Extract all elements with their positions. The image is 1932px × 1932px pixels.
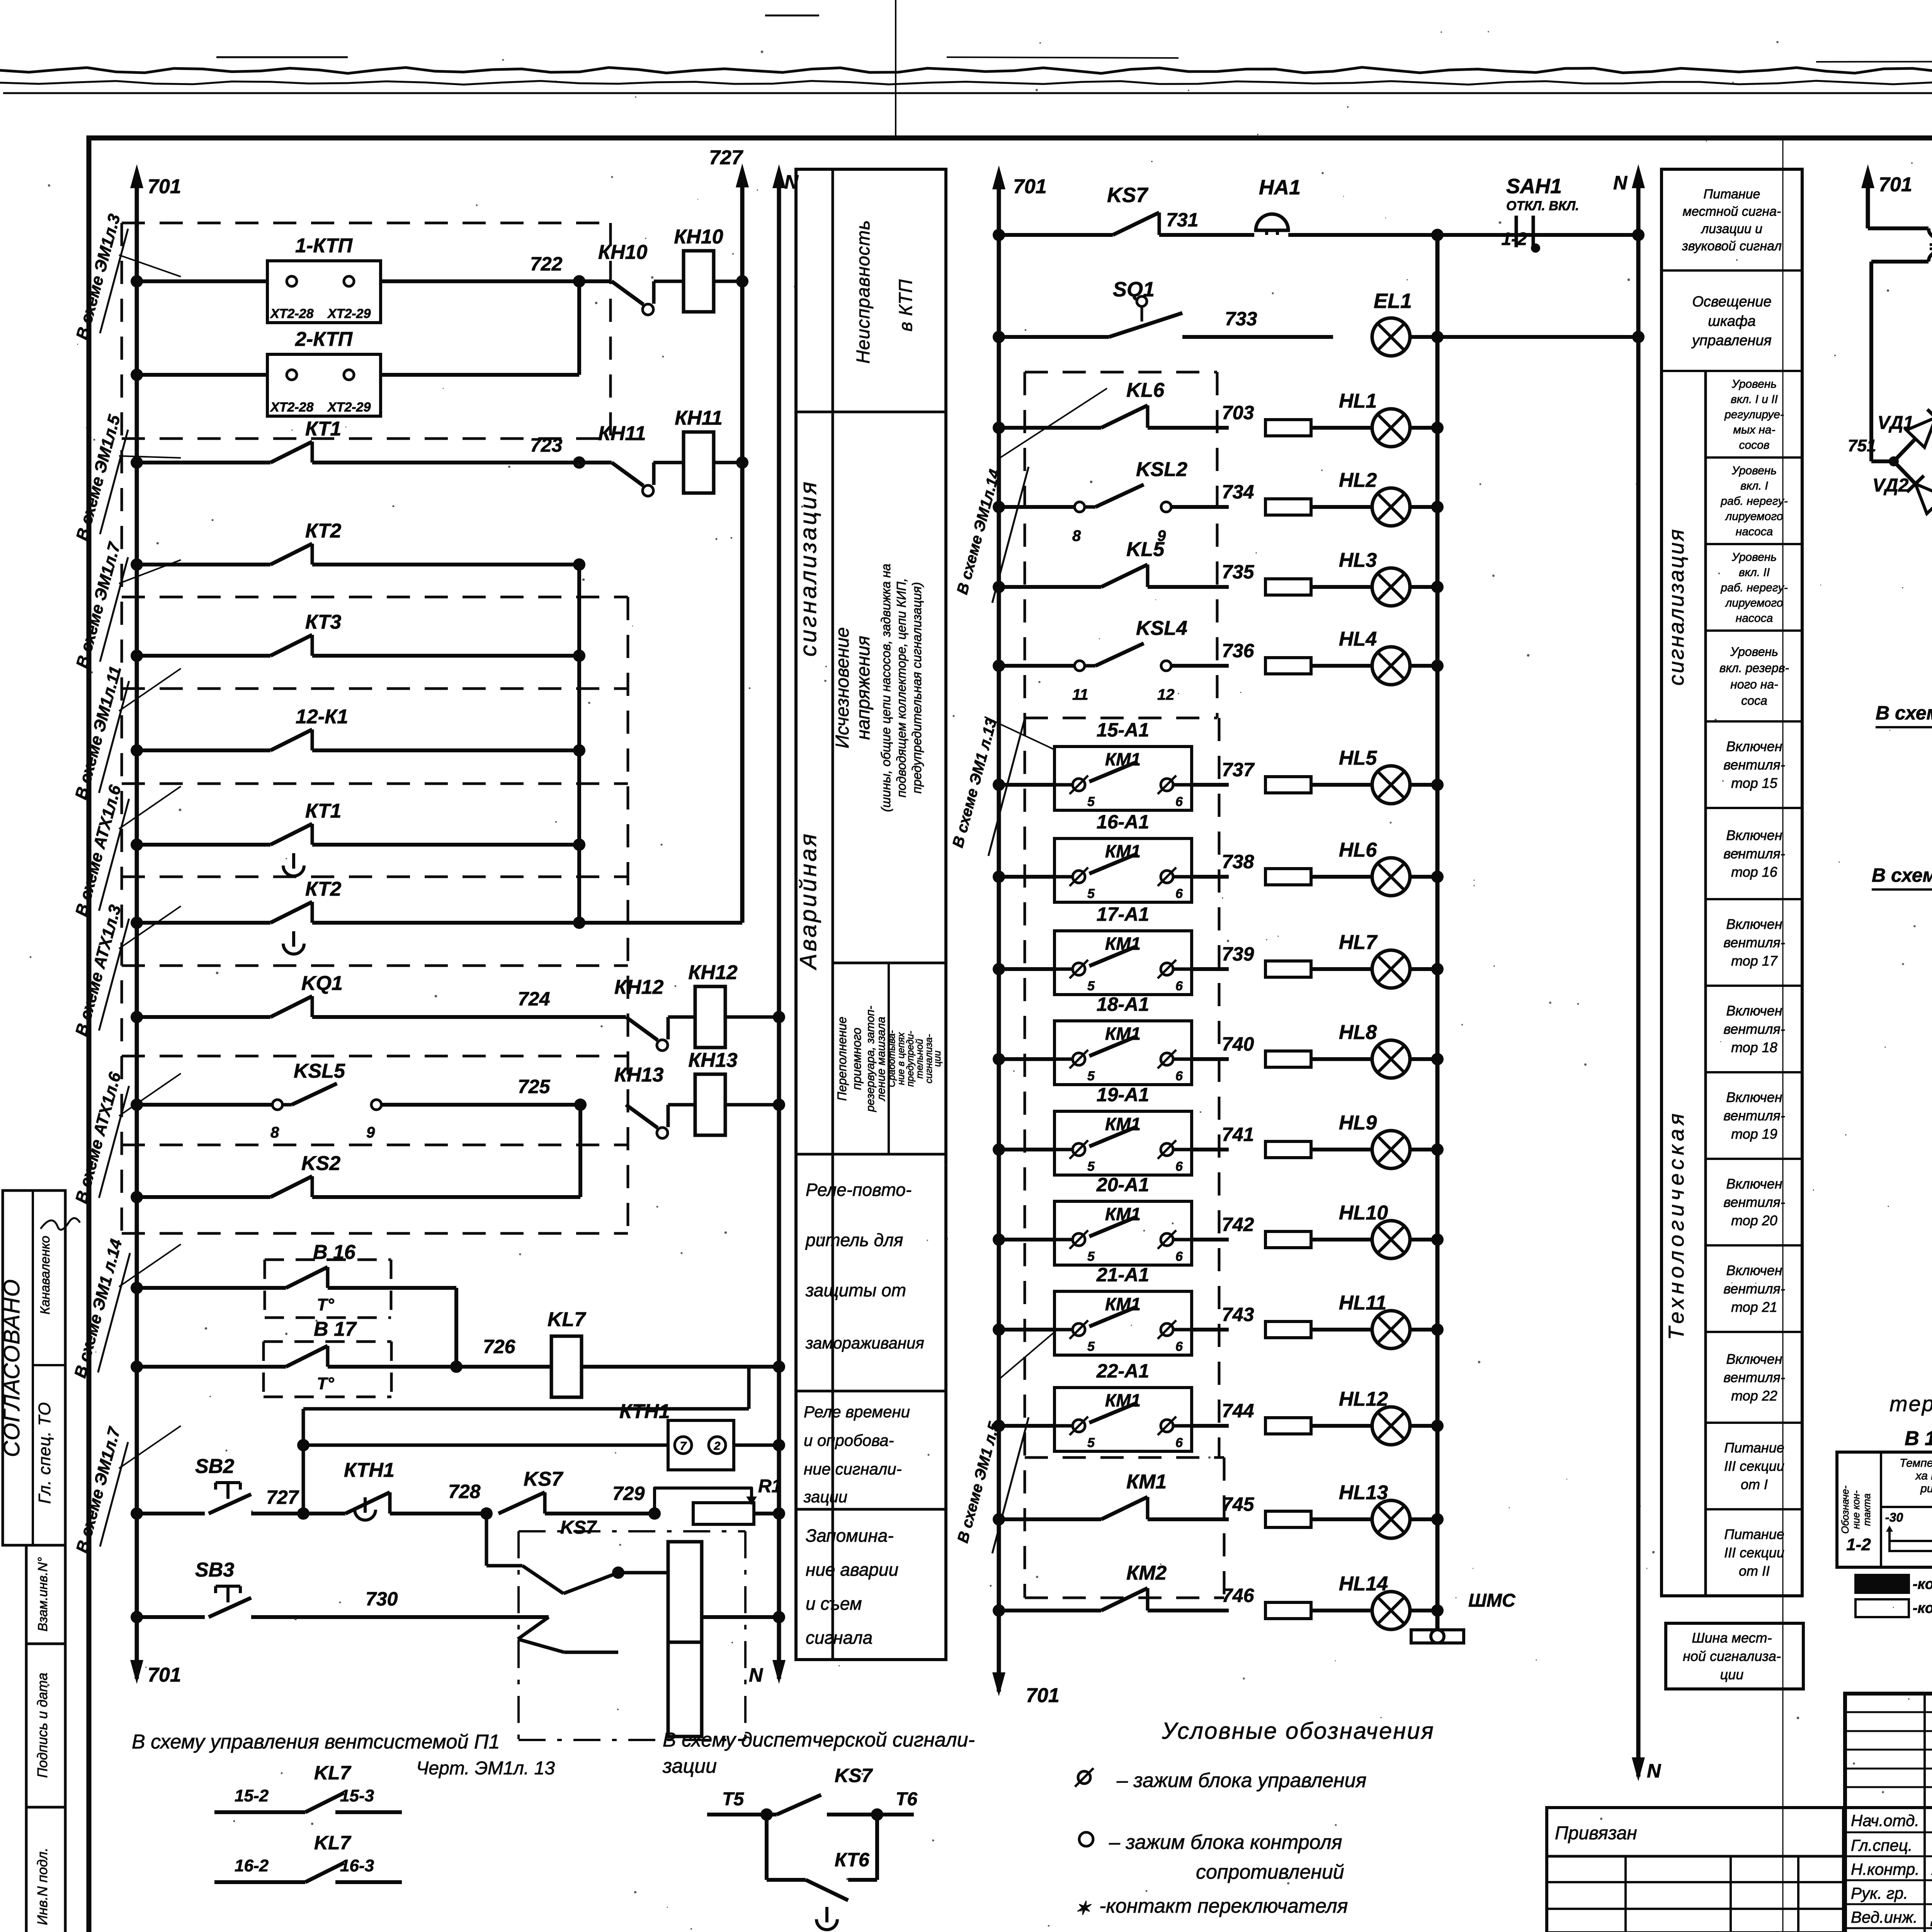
svg-text:вентиля-: вентиля- bbox=[1723, 846, 1785, 862]
svg-text:HL14: HL14 bbox=[1339, 1573, 1388, 1595]
svg-text:Аварийная: Аварийная bbox=[795, 832, 821, 970]
svg-text:VД2: VД2 bbox=[1872, 475, 1909, 496]
svg-text:от I: от I bbox=[1741, 1476, 1768, 1492]
svg-text:предупредительная сигнализация: предупредительная сигнализация) bbox=[910, 582, 924, 793]
svg-text:ХТ2-29: ХТ2-29 bbox=[327, 400, 371, 415]
pushbutton SB3 bbox=[131, 1611, 143, 1623]
svg-text:745: 745 bbox=[1222, 1493, 1255, 1515]
svg-text:раб. нерегу-: раб. нерегу- bbox=[1720, 495, 1787, 508]
svg-text:вкл. I и II: вкл. I и II bbox=[1731, 393, 1778, 406]
svg-text:В схему управления вентсисте: В схему управления вентсистемой П1 bbox=[132, 1731, 500, 1753]
row KSL2 / HL2 bbox=[993, 501, 1005, 513]
svg-text:731: 731 bbox=[1166, 209, 1198, 231]
svg-text:В схеме АТХ1л.6: В схеме АТХ1л.6 bbox=[72, 783, 125, 918]
svg-text:вентиля-: вентиля- bbox=[1723, 757, 1785, 773]
svg-text:KQ1: KQ1 bbox=[301, 972, 343, 995]
stamp box Взам.инв.№ bbox=[26, 1545, 65, 1644]
svg-text:НА1: НА1 bbox=[1259, 176, 1301, 199]
svg-text:KS7: KS7 bbox=[1107, 184, 1149, 207]
svg-text:HL11: HL11 bbox=[1339, 1292, 1386, 1314]
svg-text:В схеме ЭМ1 л.5: В схеме ЭМ1 л.5 bbox=[954, 1420, 1003, 1545]
svg-text:Уровень: Уровень bbox=[1731, 551, 1777, 563]
svg-text:тор 20: тор 20 bbox=[1731, 1213, 1777, 1228]
svg-text:Переполнение: Переполнение bbox=[835, 1017, 849, 1101]
svg-text:735: 735 bbox=[1222, 561, 1255, 583]
svg-text:тор 16: тор 16 bbox=[1731, 864, 1778, 880]
svg-text:5: 5 bbox=[1087, 1069, 1095, 1083]
svg-text:В схеме АТХ1л.6: В схеме АТХ1л.6 bbox=[72, 1070, 125, 1206]
svg-text:727: 727 bbox=[709, 146, 743, 169]
svg-text:734: 734 bbox=[1222, 481, 1254, 503]
svg-text:В схеме ЭМ1л.14: В схеме ЭМ1л.14 bbox=[954, 468, 1003, 596]
svg-text:2-КТП: 2-КТП bbox=[295, 328, 353, 350]
svg-text:В схеме ЭМ1л.3: В схеме ЭМ1л.3 bbox=[73, 212, 124, 342]
svg-text:6: 6 bbox=[1175, 794, 1183, 809]
svg-text:КН12: КН12 bbox=[688, 961, 737, 984]
svg-text:701: 701 bbox=[1013, 175, 1047, 198]
svg-text:Канаваленко: Канаваленко bbox=[38, 1236, 53, 1315]
svg-text:21-А1: 21-А1 bbox=[1096, 1264, 1149, 1286]
svg-text:Включен: Включен bbox=[1726, 1262, 1782, 1278]
svg-text:КН13: КН13 bbox=[614, 1064, 663, 1086]
svg-text:В схеме ЭМ1 л.13: В схеме ЭМ1 л.13 bbox=[949, 717, 1000, 850]
fold mark middle bbox=[1782, 139, 1784, 1932]
svg-text:701: 701 bbox=[1026, 1684, 1060, 1707]
row 21-А1 bbox=[993, 1323, 1005, 1336]
svg-text:744: 744 bbox=[1222, 1400, 1254, 1422]
svg-text:и съем: и съем bbox=[806, 1594, 862, 1614]
svg-text:В схеме ЭМ1 л.7: В схеме ЭМ1 л.7 bbox=[1872, 864, 1932, 886]
svg-text:Питание: Питание bbox=[1704, 187, 1760, 202]
svg-text:KL7: KL7 bbox=[548, 1308, 586, 1331]
svg-text:тор 18: тор 18 bbox=[1731, 1039, 1777, 1055]
bus N (ladder 1) bbox=[777, 175, 781, 1679]
svg-text:738: 738 bbox=[1222, 851, 1254, 872]
svg-text:SQ1: SQ1 bbox=[1113, 278, 1155, 301]
svg-text:Шина мест-: Шина мест- bbox=[1692, 1630, 1772, 1646]
svg-text:728: 728 bbox=[448, 1481, 481, 1502]
svg-text:Включен: Включен bbox=[1726, 1351, 1782, 1367]
svg-text:16-2: 16-2 bbox=[235, 1856, 269, 1875]
transformer secondary wiring bbox=[1871, 260, 1929, 264]
dashed enclosure ladder 1 bbox=[121, 223, 123, 1233]
svg-text:КН11: КН11 bbox=[598, 422, 646, 445]
svg-text:726: 726 bbox=[483, 1336, 516, 1357]
svg-text:вентиля-: вентиля- bbox=[1723, 1194, 1785, 1210]
svg-text:HL5: HL5 bbox=[1339, 747, 1377, 769]
svg-text:6: 6 bbox=[1175, 1159, 1183, 1174]
svg-text:SB3: SB3 bbox=[195, 1559, 234, 1581]
svg-text:5: 5 bbox=[1087, 1159, 1095, 1174]
svg-text:6: 6 bbox=[1175, 1339, 1183, 1354]
svg-text:в КТП: в КТП bbox=[896, 279, 916, 332]
svg-text:HL13: HL13 bbox=[1339, 1481, 1388, 1504]
wire КТ2 row to bus 727 bbox=[579, 921, 742, 925]
svg-text:Инв.N подл.: Инв.N подл. bbox=[34, 1848, 50, 1925]
svg-text:КН10: КН10 bbox=[674, 226, 723, 248]
svg-text:вкл. I: вкл. I bbox=[1740, 480, 1768, 492]
svg-text:Уровень: Уровень bbox=[1731, 378, 1777, 390]
svg-text:9: 9 bbox=[366, 1124, 375, 1141]
svg-text:В схеме ЭМ1л.5: В схеме ЭМ1л.5 bbox=[73, 413, 124, 543]
svg-text:6: 6 bbox=[1175, 979, 1183, 993]
row 22-А1 bbox=[993, 1420, 1005, 1432]
contact КТ2 (delayed) bbox=[131, 917, 143, 929]
contact KQ1 bbox=[131, 1011, 143, 1023]
svg-text:HL2: HL2 bbox=[1339, 469, 1377, 492]
svg-text:вентиля-: вентиля- bbox=[1723, 935, 1785, 951]
svg-text:Вед.инж.: Вед.инж. bbox=[1851, 1908, 1918, 1926]
relay coil КН11 bbox=[653, 461, 684, 464]
contact KS7 (signal) bbox=[993, 229, 1005, 241]
svg-text:ХТ2-28: ХТ2-28 bbox=[270, 400, 314, 415]
svg-text:лируемого: лируемого bbox=[1725, 510, 1783, 523]
svg-text:КТН1: КТН1 bbox=[619, 1400, 670, 1423]
svg-text:III секции: III секции bbox=[1724, 1545, 1784, 1561]
svg-text:6: 6 bbox=[1175, 886, 1183, 901]
svg-text:ХТ2-28: ХТ2-28 bbox=[270, 306, 314, 321]
svg-text:5: 5 bbox=[1087, 886, 1095, 901]
svg-text:Включен: Включен bbox=[1726, 738, 1782, 754]
svg-text:Обозначе-: Обозначе- bbox=[1839, 1485, 1851, 1534]
svg-text:1-2: 1-2 bbox=[1502, 229, 1527, 249]
svg-text:HL7: HL7 bbox=[1339, 931, 1378, 954]
svg-text:Гл.спец.: Гл.спец. bbox=[1851, 1836, 1913, 1854]
svg-text:730: 730 bbox=[366, 1588, 398, 1610]
svg-text:ление машзала: ление машзала bbox=[875, 1017, 888, 1102]
svg-text:подводящем коллекторе, цепи КИ: подводящем коллекторе, цепи КИП, bbox=[894, 578, 908, 798]
svg-text:вкл. резерв-: вкл. резерв- bbox=[1719, 661, 1789, 675]
svg-text:751: 751 bbox=[1848, 436, 1876, 455]
svg-text:KL7: KL7 bbox=[314, 1762, 352, 1784]
svg-text:Н.контр.: Н.контр. bbox=[1851, 1860, 1920, 1878]
row KSL4 / HL4 bbox=[993, 660, 1005, 672]
svg-text:такта: такта bbox=[1861, 1493, 1872, 1526]
svg-text:739: 739 bbox=[1222, 943, 1254, 965]
svg-text:724: 724 bbox=[518, 988, 550, 1010]
relay contact КН11 bbox=[579, 461, 612, 464]
svg-text:замораживания: замораживания bbox=[805, 1334, 924, 1352]
svg-text:Включен: Включен bbox=[1726, 827, 1782, 843]
svg-text:тор 17: тор 17 bbox=[1731, 953, 1778, 969]
svg-text:12-К1: 12-К1 bbox=[296, 706, 348, 728]
svg-text:11: 11 bbox=[1072, 686, 1088, 703]
heater КТН1 bbox=[303, 1444, 668, 1447]
svg-text:HL3: HL3 bbox=[1339, 549, 1377, 571]
svg-text:701: 701 bbox=[1879, 173, 1912, 196]
dashed enclosure ladder 2 bbox=[1024, 372, 1026, 1598]
svg-text:Включен: Включен bbox=[1726, 1003, 1782, 1019]
svg-text:ритель для: ритель для bbox=[805, 1230, 903, 1250]
svg-text:мых на-: мых на- bbox=[1733, 423, 1775, 436]
svg-text:вентиля-: вентиля- bbox=[1723, 1281, 1785, 1297]
svg-text:16-А1: 16-А1 bbox=[1097, 811, 1149, 833]
svg-text:КН13: КН13 bbox=[688, 1049, 737, 1071]
row 15-А1 bbox=[993, 779, 1005, 791]
svg-text:зации: зации bbox=[662, 1755, 717, 1777]
svg-text:5: 5 bbox=[1087, 1339, 1095, 1354]
svg-text:III секции: III секции bbox=[1724, 1458, 1784, 1474]
svg-text:727: 727 bbox=[266, 1486, 299, 1508]
bus 701 (power section) bbox=[1866, 175, 1870, 228]
contact КТ3 bbox=[131, 650, 143, 662]
svg-text:КТ2: КТ2 bbox=[305, 520, 341, 542]
svg-text:5: 5 bbox=[1087, 1435, 1095, 1450]
wire to switch SAH1 bbox=[1437, 233, 1509, 237]
svg-text:КН10: КН10 bbox=[598, 241, 647, 264]
svg-text:17-А1: 17-А1 bbox=[1097, 903, 1149, 925]
row 17-А1 bbox=[993, 963, 1005, 975]
svg-text:Включен: Включен bbox=[1726, 916, 1782, 932]
latch relay coil lower bbox=[668, 1642, 702, 1736]
svg-text:защиты от: защиты от bbox=[805, 1280, 906, 1300]
pushbutton SB2 bbox=[131, 1507, 143, 1520]
svg-text:-контакт разомкнут: -контакт разомкнут bbox=[1913, 1600, 1932, 1616]
svg-text:723: 723 bbox=[530, 434, 563, 456]
svg-text:Питание: Питание bbox=[1724, 1526, 1784, 1542]
svg-text:5: 5 bbox=[1087, 1249, 1095, 1264]
svg-text:KSL4: KSL4 bbox=[1136, 617, 1187, 639]
svg-text:KSL5: KSL5 bbox=[294, 1060, 345, 1082]
svg-text:и опробова-: и опробова- bbox=[804, 1431, 894, 1449]
svg-text:ной сигнализа-: ной сигнализа- bbox=[1683, 1648, 1781, 1664]
svg-text:18-А1: 18-А1 bbox=[1097, 993, 1149, 1015]
svg-text:KSL2: KSL2 bbox=[1136, 458, 1187, 481]
stamp box Подпись и дата bbox=[26, 1644, 65, 1807]
svg-text:737: 737 bbox=[1222, 759, 1255, 781]
svg-text:5: 5 bbox=[1087, 979, 1095, 993]
svg-text:В схеме ЭМ1 л.14: В схеме ЭМ1 л.14 bbox=[71, 1237, 126, 1380]
latch relay box bbox=[519, 1530, 745, 1532]
svg-text:Т6: Т6 bbox=[896, 1789, 917, 1810]
svg-text:Освещение: Освещение bbox=[1692, 294, 1771, 310]
svg-text:не используется: не используется bbox=[1196, 1926, 1355, 1932]
svg-text:Уровень: Уровень bbox=[1731, 464, 1777, 477]
contact block 2-КТП bbox=[131, 369, 143, 381]
svg-text:722: 722 bbox=[530, 253, 563, 275]
svg-text:KL7: KL7 bbox=[314, 1832, 352, 1854]
svg-text:742: 742 bbox=[1222, 1214, 1254, 1235]
svg-text:рифером, °С: рифером, °С bbox=[1920, 1482, 1932, 1495]
svg-text:KS7: KS7 bbox=[524, 1468, 563, 1490]
contact КТ1 bbox=[131, 456, 143, 469]
thermal contact В16 bbox=[131, 1282, 143, 1294]
svg-text:тор 15: тор 15 bbox=[1731, 775, 1778, 791]
relay contact КН10 bbox=[579, 279, 612, 283]
svg-text:В схеме ЭМ1л.7: В схеме ЭМ1л.7 bbox=[73, 1425, 124, 1555]
svg-text:Питание: Питание bbox=[1724, 1440, 1784, 1456]
svg-text:тор 21: тор 21 bbox=[1731, 1299, 1777, 1315]
svg-text:ХТ2-29: ХТ2-29 bbox=[327, 306, 371, 321]
svg-text:8: 8 bbox=[1072, 527, 1081, 544]
svg-text:KL5: KL5 bbox=[1126, 538, 1165, 561]
svg-text:Нач.отд.: Нач.отд. bbox=[1851, 1811, 1919, 1830]
svg-text:СОГЛАСОВАНО: СОГЛАСОВАНО bbox=[0, 1279, 24, 1457]
svg-text:15-2: 15-2 bbox=[235, 1786, 269, 1805]
svg-text:KS7: KS7 bbox=[560, 1517, 597, 1538]
wire 2-КТП to bus 722 bbox=[381, 373, 579, 377]
svg-text:сигнализация: сигнализация bbox=[1664, 528, 1688, 685]
svg-text:КТ2: КТ2 bbox=[305, 878, 341, 900]
svg-text:VД1: VД1 bbox=[1878, 413, 1913, 433]
row 19-А1 bbox=[993, 1143, 1005, 1156]
svg-text:вентиля-: вентиля- bbox=[1723, 1369, 1785, 1385]
svg-text:терморегулирующих устройств: терморегулирующих устройств bbox=[1889, 1391, 1932, 1416]
bus 701 (ladder 1) bbox=[135, 175, 139, 1679]
svg-text:HL1: HL1 bbox=[1339, 390, 1377, 412]
row 20-А1 bbox=[993, 1233, 1005, 1246]
svg-text:N: N bbox=[1647, 1760, 1661, 1782]
door switch SQ1 bbox=[993, 331, 1005, 343]
svg-text:Температура возду-: Температура возду- bbox=[1900, 1457, 1932, 1469]
svg-text:729: 729 bbox=[612, 1483, 645, 1504]
contact KSL5 bbox=[131, 1099, 143, 1111]
svg-text:Исчезновение: Исчезновение bbox=[832, 627, 853, 748]
wire 1-КТП to node 722 bbox=[381, 279, 579, 283]
svg-text:ние сигнали-: ние сигнали- bbox=[804, 1460, 902, 1478]
svg-text:6: 6 bbox=[1175, 1435, 1183, 1450]
svg-text:6: 6 bbox=[1175, 1069, 1183, 1083]
thermal contact В17 bbox=[131, 1361, 143, 1373]
svg-text:вкл. II: вкл. II bbox=[1739, 566, 1770, 579]
svg-text:Уровень: Уровень bbox=[1730, 645, 1778, 658]
svg-text:Дорофеев: Дорофеев bbox=[1930, 1908, 1932, 1927]
table аварийная сигнализация bbox=[796, 169, 946, 1660]
svg-text:R1: R1 bbox=[758, 1476, 782, 1497]
contact КМ2 (section III from II) bbox=[993, 1604, 1005, 1617]
svg-text:насоса: насоса bbox=[1736, 612, 1773, 625]
svg-text:5: 5 bbox=[1087, 794, 1095, 809]
thin top border line bbox=[3, 92, 1932, 94]
svg-text:15-А1: 15-А1 bbox=[1097, 719, 1149, 741]
svg-text:Рук. гр.: Рук. гр. bbox=[1851, 1884, 1908, 1902]
svg-text:КТН1: КТН1 bbox=[344, 1459, 395, 1481]
svg-text:регулируе-: регулируе- bbox=[1724, 408, 1784, 421]
svg-text:КН12: КН12 bbox=[614, 976, 663, 998]
svg-text:15-3: 15-3 bbox=[340, 1786, 374, 1805]
bus 727 bbox=[740, 174, 745, 923]
small table Привязан bbox=[1547, 1808, 1844, 1932]
svg-text:740: 740 bbox=[1222, 1033, 1254, 1055]
svg-text:8: 8 bbox=[270, 1124, 279, 1141]
svg-text:6: 6 bbox=[1175, 1249, 1183, 1264]
svg-text:KS7: KS7 bbox=[835, 1765, 873, 1786]
svg-text:HL10: HL10 bbox=[1339, 1202, 1388, 1224]
staff rows bbox=[1845, 1832, 1932, 1833]
contact KS2 bbox=[131, 1191, 143, 1203]
relay coil КН12 bbox=[668, 1015, 696, 1019]
svg-text:КТ6: КТ6 bbox=[835, 1849, 870, 1871]
svg-text:HL4: HL4 bbox=[1339, 628, 1377, 650]
svg-text:шкафа: шкафа bbox=[1708, 313, 1756, 329]
svg-text:736: 736 bbox=[1222, 640, 1255, 662]
svg-text:ШМС: ШМС bbox=[1468, 1590, 1516, 1611]
contact 12-К1 bbox=[131, 744, 143, 757]
svg-text:Реле-повто-: Реле-повто- bbox=[806, 1180, 912, 1200]
svg-text:7: 7 bbox=[680, 1440, 687, 1452]
svg-text:КН11: КН11 bbox=[675, 407, 723, 429]
svg-text:управления: управления bbox=[1691, 332, 1772, 349]
svg-text:лируемого: лируемого bbox=[1725, 597, 1783, 609]
svg-text:местной сигна-: местной сигна- bbox=[1683, 204, 1781, 219]
svg-text:Включен: Включен bbox=[1726, 1176, 1782, 1192]
scan artifact top wavy lines bbox=[0, 67, 1932, 73]
svg-text:Включен: Включен bbox=[1726, 1089, 1782, 1105]
svg-text:В схеме АТХ1л.3: В схеме АТХ1л.3 bbox=[72, 903, 125, 1038]
svg-text:EL1: EL1 bbox=[1374, 289, 1412, 313]
svg-text:Черт. ЭМ1л. 13: Черт. ЭМ1л. 13 bbox=[416, 1758, 555, 1779]
svg-text:703: 703 bbox=[1222, 402, 1254, 423]
svg-text:22-А1: 22-А1 bbox=[1096, 1360, 1149, 1382]
svg-text:сигнала: сигнала bbox=[806, 1628, 872, 1648]
latch mechanism linkage bbox=[485, 1514, 488, 1566]
svg-text:лизации и: лизации и bbox=[1701, 221, 1762, 236]
svg-text:SAH1: SAH1 bbox=[1506, 175, 1562, 198]
svg-text:1-КТП: 1-КТП bbox=[295, 235, 353, 257]
table технологическая сигнализация bbox=[1662, 169, 1802, 1596]
svg-text:КМ2: КМ2 bbox=[1126, 1562, 1167, 1584]
lamp bus (ladder 2) bbox=[1435, 235, 1440, 1638]
contact КТ2 bbox=[131, 558, 143, 571]
legend В 16 закрыт bbox=[1855, 1575, 1909, 1593]
svg-text:КМ1: КМ1 bbox=[1126, 1471, 1167, 1493]
svg-text:-контакт переключателя: -контакт переключателя bbox=[1099, 1895, 1348, 1917]
svg-text:сопротивлений: сопротивлений bbox=[1196, 1861, 1344, 1883]
relay coil КН10 bbox=[654, 280, 684, 283]
svg-text:20-А1: 20-А1 bbox=[1096, 1174, 1149, 1196]
svg-text:насоса: насоса bbox=[1736, 526, 1773, 538]
svg-text:КТ1: КТ1 bbox=[305, 418, 341, 440]
row KL6 / HL1 bbox=[993, 422, 1005, 434]
main title block bbox=[1845, 1694, 1932, 1932]
svg-text:741: 741 bbox=[1222, 1124, 1254, 1145]
svg-text:В схему диспетчерской сигнали-: В схему диспетчерской сигнали- bbox=[663, 1729, 975, 1751]
svg-text:Т°: Т° bbox=[317, 1295, 334, 1314]
cell Шина местной сигнализации bbox=[1666, 1623, 1803, 1689]
wire КТН1 branch bbox=[303, 1407, 749, 1411]
svg-text:HL9: HL9 bbox=[1339, 1112, 1377, 1134]
contact КТ1 (delayed) bbox=[131, 838, 143, 851]
svg-text:соса: соса bbox=[1741, 694, 1767, 707]
bus 701 (ladder 2) bbox=[997, 176, 1001, 1692]
stamp box СОГЛАСОВАНО bbox=[3, 1190, 65, 1545]
legend В 16 открыт bbox=[1855, 1599, 1909, 1617]
svg-text:Привязан: Привязан bbox=[1555, 1823, 1637, 1844]
svg-text:Т°: Т° bbox=[317, 1374, 334, 1393]
diode VД2 bbox=[1894, 461, 1932, 527]
bus N (ladder 2) bbox=[1636, 175, 1641, 1777]
svg-text:напряжения: напряжения bbox=[853, 636, 874, 740]
svg-text:В схеме ЭМ1л.11: В схеме ЭМ1л.11 bbox=[71, 664, 125, 801]
svg-text:725: 725 bbox=[518, 1076, 551, 1097]
svg-text:В 17: В 17 bbox=[314, 1318, 357, 1340]
svg-text:HL8: HL8 bbox=[1339, 1021, 1377, 1044]
svg-text:звуковой сигнал: звуковой сигнал bbox=[1682, 239, 1782, 253]
svg-text:В схеме ЭМ1 л. 6: В схеме ЭМ1 л. 6 bbox=[1876, 702, 1932, 724]
svg-text:ха перед кало-: ха перед кало- bbox=[1915, 1469, 1932, 1482]
svg-text:ОТКЛ. ВКЛ.: ОТКЛ. ВКЛ. bbox=[1506, 199, 1579, 213]
svg-text:ние аварии: ние аварии bbox=[806, 1560, 898, 1580]
svg-text:16-3: 16-3 bbox=[340, 1856, 374, 1875]
svg-text:ние кон-: ние кон- bbox=[1850, 1490, 1862, 1529]
svg-text:KL6: KL6 bbox=[1126, 379, 1165, 401]
svg-text:приемного: приемного bbox=[850, 1027, 864, 1090]
svg-text:ного на-: ного на- bbox=[1730, 677, 1778, 691]
svg-text:N: N bbox=[1613, 172, 1628, 194]
svg-text:Технологическая: Технологическая bbox=[1664, 1110, 1688, 1340]
svg-text:19-А1: 19-А1 bbox=[1097, 1084, 1149, 1105]
svg-text:сигнализация: сигнализация bbox=[795, 480, 821, 656]
